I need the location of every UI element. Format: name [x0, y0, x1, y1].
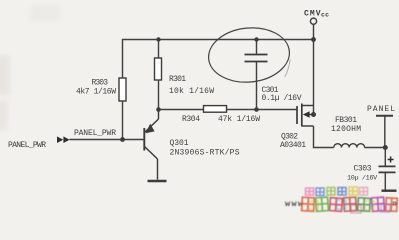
svg-text:10µ /16V: 10µ /16V — [347, 175, 378, 183]
ellipse pen tail — [285, 60, 290, 78]
node: gate net junction — [254, 107, 259, 112]
inductor FB301 — [334, 144, 365, 148]
node: Q302 source/body junction — [311, 112, 316, 117]
svg-text:FB301: FB301 — [335, 116, 357, 125]
capacitor C303 (electrolytic) — [384, 148, 386, 166]
CMVcc terminal — [310, 18, 316, 24]
Q301 emitter arrow (PNP, pointing to base) — [146, 124, 155, 134]
svg-text:PANEL: PANEL — [367, 105, 395, 114]
transistor Q301 — [144, 110, 158, 180]
svg-text:cc: cc — [321, 12, 329, 19]
svg-text:C303: C303 — [354, 165, 372, 174]
label C303 value — [347, 165, 378, 183]
svg-text:PANEL_PWR: PANEL_PWR — [8, 141, 46, 150]
wire: gate lead to Q302 — [257, 109, 298, 111]
resistor R304 — [204, 106, 227, 113]
capacitor C301 — [245, 55, 268, 62]
svg-text:PANEL_PWR: PANEL_PWR — [74, 129, 116, 138]
svg-text:R304: R304 — [182, 115, 200, 124]
node: rail / CMVcc junction — [311, 37, 316, 42]
label Q301 — [170, 139, 240, 158]
watermark — [285, 187, 397, 213]
wire: R304 to C301 node — [227, 109, 257, 111]
wire: R303 bottom lead — [122, 101, 124, 140]
input arrow PANEL_PWR — [57, 136, 70, 143]
label C301 value — [262, 86, 302, 103]
wire: C301 top lead — [256, 40, 258, 55]
wire: CMVcc terminal to rail — [313, 24, 315, 39]
svg-text:R301: R301 — [169, 75, 186, 84]
node: output junction — [383, 145, 388, 150]
svg-text:R303: R303 — [92, 78, 109, 87]
svg-text:10k 1/16W: 10k 1/16W — [169, 87, 214, 96]
highlight ellipse around C301 — [206, 24, 292, 86]
node: R301 / R304 / Q301 emitter junction — [156, 107, 161, 112]
node: R303 / base wire junction — [120, 137, 125, 142]
svg-text:2N3906S-RTK/PS: 2N3906S-RTK/PS — [170, 149, 240, 158]
label R304 value — [182, 115, 260, 124]
label R303 value — [76, 78, 116, 96]
wire: Q302 drain to FB301 — [314, 126, 334, 148]
svg-text:A03401: A03401 — [280, 141, 306, 150]
wire: Q302 source vertical — [313, 40, 315, 115]
wire: R301 bottom lead — [158, 80, 160, 110]
ground (Q301 collector) — [148, 180, 167, 182]
wire: node to R304 — [159, 109, 204, 111]
svg-text:Q301: Q301 — [170, 139, 189, 148]
wire: top supply rail — [123, 40, 314, 79]
svg-text:n: n — [393, 201, 397, 209]
PANEL terminal bar — [376, 115, 393, 117]
svg-text:0.1µ /16V: 0.1µ /16V — [262, 94, 302, 103]
wire: R301 top lead to rail — [158, 40, 160, 59]
resistor R303 — [119, 78, 126, 101]
label R301 value — [169, 75, 214, 96]
transistor Q302 (P-MOSFET) — [297, 104, 314, 127]
wire: C301 bottom lead to gate net — [256, 62, 258, 110]
wire: FB301 to output node — [364, 147, 385, 149]
node: rail / R301 junction — [156, 37, 160, 41]
C303 plus sign — [388, 157, 394, 163]
svg-text:4k7 1/16W: 4k7 1/16W — [76, 88, 116, 97]
svg-text:120OHM: 120OHM — [331, 125, 361, 134]
ground (C303) — [382, 189, 397, 191]
wire: PANEL_PWR to Q301 base — [69, 139, 143, 141]
Q302 body arrow — [303, 111, 310, 118]
svg-text:47k 1/16W: 47k 1/16W — [218, 115, 260, 124]
label Q302 — [280, 133, 306, 151]
node: rail / C301 junction — [254, 37, 258, 41]
label FB301 value — [331, 116, 361, 134]
resistor R301 — [155, 58, 162, 80]
wire: C303 bottom lead — [384, 173, 386, 190]
wire: PANEL terminal to node — [384, 117, 386, 148]
svg-text:CMV: CMV — [304, 10, 321, 19]
net label CMVcc — [304, 10, 329, 19]
